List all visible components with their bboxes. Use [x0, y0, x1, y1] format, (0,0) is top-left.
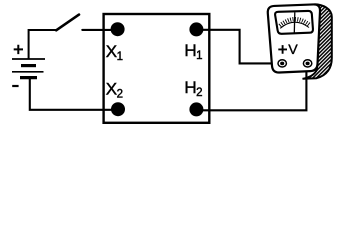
battery B1 plate long lower [12, 71, 44, 73]
svg-text:V: V [288, 42, 298, 58]
terminal dot H2 [189, 102, 203, 116]
voltmeter plus terminal [278, 60, 286, 67]
terminal dot X2 [111, 102, 125, 116]
wire battery bottom to X2 [30, 78, 118, 110]
voltmeter body front face [268, 4, 320, 72]
voltmeter scale arc [280, 22, 309, 28]
switch S1 fixed contact wire to X1 [82, 29, 117, 31]
voltmeter 3D side shading [303, 4, 332, 79]
battery B1 plate short bottom [20, 76, 37, 79]
terminal dot H1 [189, 22, 203, 36]
battery B1 plus label [14, 45, 23, 54]
voltmeter needle [293, 12, 296, 33]
wire H2 to voltmeter minus terminal [196, 67, 306, 111]
wire battery top to switch hinge [29, 30, 56, 59]
voltmeter M1 [268, 4, 332, 79]
voltmeter display window [275, 11, 313, 34]
terminal dot X1 [111, 22, 125, 36]
wire H1 to voltmeter plus terminal [196, 30, 278, 64]
switch S1 blade [56, 15, 79, 31]
voltmeter plus sign [278, 45, 287, 54]
battery B1 plate short upper [21, 64, 36, 67]
battery B1 minus label [12, 85, 18, 87]
transformer box [104, 14, 210, 123]
battery B1 plate long top [12, 58, 45, 60]
voltmeter scale tick marks [280, 19, 309, 26]
voltmeter minus terminal [303, 60, 311, 67]
